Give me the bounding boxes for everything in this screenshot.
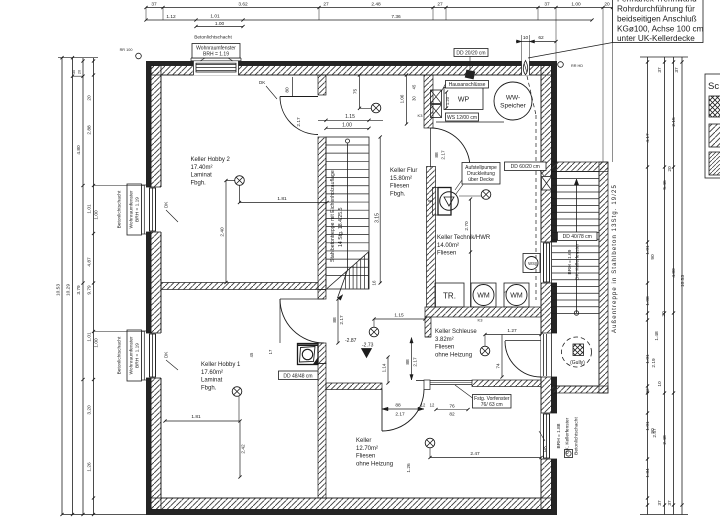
svg-text:Wohnraumfenster: Wohnraumfenster xyxy=(129,336,135,374)
svg-text:Fbgh.: Fbgh. xyxy=(390,191,406,197)
svg-text:37: 37 xyxy=(544,2,550,8)
svg-text:3.62: 3.62 xyxy=(238,2,248,8)
svg-text:1.00: 1.00 xyxy=(94,210,100,220)
svg-text:30: 30 xyxy=(72,70,76,74)
svg-text:12.70m²: 12.70m² xyxy=(356,446,378,452)
svg-text:Keller Hobby 1: Keller Hobby 1 xyxy=(201,362,241,368)
svg-text:Keller Schleuse: Keller Schleuse xyxy=(435,329,477,335)
svg-text:37: 37 xyxy=(657,500,663,506)
svg-text:Betonlichtschacht: Betonlichtschacht xyxy=(574,417,580,455)
svg-text:2.17: 2.17 xyxy=(413,357,419,367)
svg-text:2.17: 2.17 xyxy=(441,150,447,160)
svg-text:4.87: 4.87 xyxy=(87,257,93,267)
svg-text:10.53: 10.53 xyxy=(680,275,686,287)
svg-text:2.88: 2.88 xyxy=(87,125,93,135)
svg-text:Speicher: Speicher xyxy=(500,103,526,110)
svg-text:1.12: 1.12 xyxy=(166,14,176,20)
svg-text:2.70: 2.70 xyxy=(464,221,470,231)
svg-text:Außentreppe in Stahlbeton 13St: Außentreppe in Stahlbeton 13Stg. 19/25 xyxy=(612,184,618,333)
svg-text:90: 90 xyxy=(650,254,656,260)
svg-text:1.15: 1.15 xyxy=(394,313,404,319)
svg-text:Laminat: Laminat xyxy=(201,378,223,384)
svg-text:DK: DK xyxy=(259,80,265,85)
svg-text:1.34: 1.34 xyxy=(645,468,651,478)
svg-text:Keller: Keller xyxy=(356,438,371,444)
svg-text:1.00: 1.00 xyxy=(342,123,352,129)
svg-text:20: 20 xyxy=(661,311,667,317)
svg-text:7.36: 7.36 xyxy=(391,14,401,20)
svg-text:DK: DK xyxy=(164,202,169,208)
svg-text:Hausanschlüsse: Hausanschlüsse xyxy=(449,82,486,88)
svg-text:Keller Technik/HWR: Keller Technik/HWR xyxy=(437,235,491,241)
svg-text:2.17: 2.17 xyxy=(296,117,302,127)
svg-text:9.79: 9.79 xyxy=(87,285,93,295)
svg-text:Laminat: Laminat xyxy=(191,173,213,179)
svg-text:4.80: 4.80 xyxy=(671,268,677,278)
svg-text:5.46: 5.46 xyxy=(662,180,668,190)
svg-text:15.80m²: 15.80m² xyxy=(390,176,412,182)
svg-text:88: 88 xyxy=(395,403,401,409)
svg-text:BRH = 1.69: BRH = 1.69 xyxy=(567,249,573,274)
svg-text:12: 12 xyxy=(430,403,435,408)
svg-text:BRH = 1.19: BRH = 1.19 xyxy=(135,197,141,222)
svg-text:Fliesen: Fliesen xyxy=(437,251,456,257)
svg-text:1.01: 1.01 xyxy=(87,332,93,342)
svg-text:1.15: 1.15 xyxy=(345,114,355,120)
svg-text:80: 80 xyxy=(285,87,291,93)
svg-text:Wohnraumfenster: Wohnraumfenster xyxy=(129,190,135,228)
svg-text:über Decke: über Decke xyxy=(468,177,494,183)
svg-text:WP: WP xyxy=(458,97,470,104)
svg-text:RR HD: RR HD xyxy=(571,64,583,68)
svg-text:14 Stg. 18.4/25.5: 14 Stg. 18.4/25.5 xyxy=(338,207,344,247)
svg-text:1.01: 1.01 xyxy=(645,245,651,255)
svg-text:76: 76 xyxy=(449,404,455,410)
svg-text:2.15: 2.15 xyxy=(671,117,677,127)
svg-text:88: 88 xyxy=(405,359,411,365)
svg-text:1.14: 1.14 xyxy=(382,363,387,372)
svg-text:1.01: 1.01 xyxy=(645,354,651,364)
svg-text:10: 10 xyxy=(523,35,529,41)
svg-text:37: 37 xyxy=(151,2,157,8)
svg-text:88: 88 xyxy=(434,152,440,158)
svg-text:(Gully): (Gully) xyxy=(570,360,585,366)
svg-text:S: S xyxy=(503,290,508,293)
svg-text:62: 62 xyxy=(538,35,544,41)
svg-text:Keller Flur: Keller Flur xyxy=(390,168,417,174)
svg-text:2.17: 2.17 xyxy=(395,412,405,418)
svg-text:20: 20 xyxy=(604,2,610,8)
svg-text:RR 100: RR 100 xyxy=(120,48,133,52)
svg-text:2.42: 2.42 xyxy=(241,444,247,454)
svg-text:1.26: 1.26 xyxy=(87,462,93,472)
svg-text:Fbgh.: Fbgh. xyxy=(201,385,217,391)
svg-text:TR.: TR. xyxy=(443,292,456,301)
svg-text:K3: K3 xyxy=(418,113,424,118)
svg-text:WW-: WW- xyxy=(506,95,520,102)
svg-text:ohne Heizung: ohne Heizung xyxy=(435,352,472,358)
svg-text:Fbgh.: Fbgh. xyxy=(191,180,207,186)
svg-text:K3: K3 xyxy=(478,318,484,323)
svg-text:20: 20 xyxy=(87,95,93,101)
svg-text:75: 75 xyxy=(353,89,359,95)
svg-text:2.17: 2.17 xyxy=(339,315,345,325)
svg-text:Fliesen: Fliesen xyxy=(356,454,375,460)
svg-text:Betonlichtschacht: Betonlichtschacht xyxy=(117,190,123,228)
svg-text:DK: DK xyxy=(164,352,169,358)
svg-text:WS 12/00 cm: WS 12/00 cm xyxy=(447,115,477,121)
svg-text:1.81: 1.81 xyxy=(277,196,287,202)
svg-text:1.48: 1.48 xyxy=(654,331,660,341)
svg-text:Stahlbetontreppe mit Eichenhol: Stahlbetontreppe mit Eichenholzauflage xyxy=(330,170,336,262)
svg-text:1.08: 1.08 xyxy=(645,296,651,306)
svg-text:37: 37 xyxy=(667,500,673,506)
svg-text:88: 88 xyxy=(332,317,338,323)
svg-text:45: 45 xyxy=(412,84,417,89)
svg-text:beidseitigen Anschluß: beidseitigen Anschluß xyxy=(617,15,697,24)
svg-text:1.26: 1.26 xyxy=(406,463,412,473)
svg-text:DD 48/48 cm: DD 48/48 cm xyxy=(283,374,312,380)
svg-text:10: 10 xyxy=(657,381,663,387)
svg-text:3.79: 3.79 xyxy=(76,285,82,295)
svg-text:37: 37 xyxy=(657,67,663,73)
svg-text:3.82m²: 3.82m² xyxy=(435,337,454,343)
svg-text:2.57: 2.57 xyxy=(652,428,658,438)
svg-text:2.19: 2.19 xyxy=(651,358,657,368)
svg-text:DK: DK xyxy=(542,446,547,452)
svg-text:17.40m²: 17.40m² xyxy=(191,165,213,171)
svg-text:92: 92 xyxy=(645,388,651,394)
svg-text:82: 82 xyxy=(449,412,455,418)
svg-text:Betonlichtschacht: Betonlichtschacht xyxy=(194,35,232,41)
svg-text:KGø100, Achse 100 cm: KGø100, Achse 100 cm xyxy=(617,25,704,34)
svg-text:16: 16 xyxy=(372,280,377,286)
svg-text:30: 30 xyxy=(412,96,417,101)
svg-text:17.60m²: 17.60m² xyxy=(201,370,223,376)
svg-text:1.00: 1.00 xyxy=(94,338,100,348)
svg-text:Keller Hobby 2: Keller Hobby 2 xyxy=(191,157,231,163)
svg-text:76/ 63 cm: 76/ 63 cm xyxy=(481,402,503,408)
svg-text:2.47: 2.47 xyxy=(470,451,480,457)
svg-text:74: 74 xyxy=(496,363,502,369)
svg-text:BRH = 1.19: BRH = 1.19 xyxy=(135,343,141,368)
svg-text:1.00: 1.00 xyxy=(571,2,581,8)
svg-text:Rohrdurchführung für: Rohrdurchführung für xyxy=(617,5,695,14)
svg-text:1.01: 1.01 xyxy=(87,204,93,214)
svg-text:-2.87: -2.87 xyxy=(345,338,357,344)
svg-text:1.06: 1.06 xyxy=(400,94,405,103)
svg-text:BRH = 1.88: BRH = 1.88 xyxy=(556,423,562,448)
svg-text:3.20: 3.20 xyxy=(87,405,93,415)
svg-text:27: 27 xyxy=(437,2,443,8)
svg-text:10.53: 10.53 xyxy=(56,284,62,296)
svg-text:OK. Kellerfenster: OK. Kellerfenster xyxy=(565,417,571,454)
svg-text:4.80: 4.80 xyxy=(76,145,82,155)
svg-text:Fliesen: Fliesen xyxy=(390,184,409,190)
svg-text:17: 17 xyxy=(268,349,273,354)
svg-text:Betonlichtschacht: Betonlichtschacht xyxy=(117,336,123,374)
svg-text:1.00: 1.00 xyxy=(215,21,225,27)
svg-text:20: 20 xyxy=(78,70,82,74)
svg-text:20: 20 xyxy=(667,166,673,172)
svg-text:1.20: 1.20 xyxy=(445,96,450,105)
svg-text:37: 37 xyxy=(674,67,680,73)
svg-text:1.81: 1.81 xyxy=(191,414,201,420)
svg-text:WM: WM xyxy=(477,293,490,300)
svg-text:Fermanex Trennwand: Fermanex Trennwand xyxy=(617,0,697,4)
svg-text:1.01: 1.01 xyxy=(210,14,220,20)
svg-text:BRH = 1.19: BRH = 1.19 xyxy=(203,51,229,57)
svg-text:3.15: 3.15 xyxy=(375,213,381,223)
svg-text:27: 27 xyxy=(323,2,329,8)
svg-text:14.00m²: 14.00m² xyxy=(437,243,459,249)
svg-text:1.27: 1.27 xyxy=(507,328,517,334)
svg-text:2.40: 2.40 xyxy=(220,227,226,237)
svg-text:-2.73: -2.73 xyxy=(362,343,374,349)
svg-text:WS: WS xyxy=(528,261,535,266)
svg-text:DD 20/20 cm: DD 20/20 cm xyxy=(456,50,485,56)
svg-text:45: 45 xyxy=(249,352,254,357)
svg-text:Sc: Sc xyxy=(708,81,719,92)
svg-text:Fliesen: Fliesen xyxy=(435,345,454,351)
svg-text:OK. Kellerfenster: OK. Kellerfenster xyxy=(575,243,581,280)
svg-text:12: 12 xyxy=(421,403,426,408)
svg-text:2.48: 2.48 xyxy=(371,2,381,8)
svg-text:10.29: 10.29 xyxy=(66,284,72,296)
svg-text:4.17: 4.17 xyxy=(645,133,651,143)
svg-text:2.48: 2.48 xyxy=(662,435,668,445)
svg-text:DD 60/20 cm: DD 60/20 cm xyxy=(511,164,540,170)
svg-text:unter UK-Kellerdecke: unter UK-Kellerdecke xyxy=(617,34,695,43)
svg-text:WM: WM xyxy=(510,293,523,300)
svg-text:DD 40/78 cm: DD 40/78 cm xyxy=(563,234,592,240)
svg-text:ohne Heizung: ohne Heizung xyxy=(356,461,393,467)
